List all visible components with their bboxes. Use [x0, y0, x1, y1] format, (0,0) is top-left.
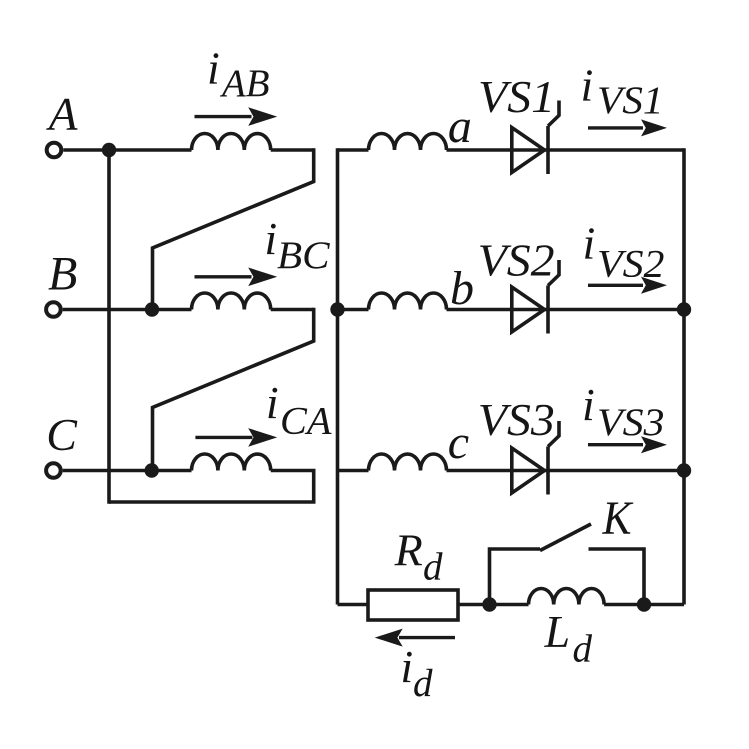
- wire winding BC to zigzag: [271, 308, 314, 312]
- wire B terminal to winding BC: [63, 308, 192, 312]
- node bus-b: [330, 302, 344, 316]
- arrow i_d (points left): [375, 629, 455, 647]
- switch K blade: [540, 524, 591, 551]
- svg-text:i: i: [581, 59, 594, 110]
- arrow i_VS3: [588, 436, 667, 453]
- svg-text:i: i: [207, 43, 220, 94]
- wire A-phase bus down: [107, 148, 111, 503]
- thyristor VS2: [512, 287, 545, 332]
- node A: [102, 143, 116, 157]
- svg-text:VS3: VS3: [478, 394, 555, 445]
- svg-text:R: R: [394, 525, 423, 576]
- svg-text:i: i: [583, 218, 596, 269]
- svg-text:VS1: VS1: [478, 71, 555, 122]
- wire row b: [338, 308, 369, 312]
- wire C terminal to winding CA: [63, 469, 192, 473]
- thyristor VS3: [512, 448, 545, 493]
- svg-text:i: i: [264, 213, 277, 264]
- wire load row left: [338, 603, 369, 607]
- svg-text:A: A: [46, 89, 78, 141]
- terminal B: [46, 302, 61, 317]
- svg-text:VS2: VS2: [478, 234, 555, 285]
- wire zigzag B-to-C: [153, 308, 314, 471]
- svg-text:VS2: VS2: [597, 243, 665, 286]
- svg-text:a: a: [448, 100, 472, 153]
- switch K frame right: [589, 549, 645, 605]
- wire row a to right bus: [447, 148, 685, 152]
- thyristor VS1: [512, 128, 545, 173]
- svg-text:d: d: [423, 546, 443, 589]
- svg-text:VS1: VS1: [597, 79, 664, 122]
- wire right bus: [682, 148, 686, 604]
- inductor Ld: [529, 588, 605, 604]
- node C: [145, 463, 159, 477]
- wire row b to right bus: [447, 308, 685, 312]
- terminal C: [46, 463, 61, 478]
- svg-text:C: C: [46, 409, 78, 460]
- svg-text:VS3: VS3: [597, 401, 665, 444]
- resistor Rd: [368, 590, 458, 620]
- svg-text:i: i: [582, 379, 595, 430]
- winding b (secondary): [369, 293, 447, 310]
- svg-text:b: b: [450, 262, 474, 315]
- wire winding AB to zigzag: [271, 148, 314, 152]
- arrow i_BC: [195, 268, 278, 287]
- arrow i_VS2: [588, 277, 667, 294]
- wire Ld to right bus: [604, 603, 684, 607]
- svg-text:d: d: [413, 662, 433, 705]
- arrow i_VS1: [588, 119, 667, 136]
- svg-text:K: K: [602, 492, 635, 545]
- svg-text:CA: CA: [280, 400, 332, 443]
- node load-right: [637, 597, 651, 611]
- wire row c to right bus: [447, 469, 685, 473]
- wire A terminal to winding AB: [63, 148, 191, 152]
- svg-text:i: i: [400, 641, 413, 692]
- node load-left: [482, 597, 496, 611]
- wire row c: [338, 469, 369, 473]
- wire Rd to node: [458, 603, 529, 607]
- node B: [145, 302, 159, 316]
- winding AB (primary): [192, 134, 271, 151]
- arrow i_AB: [195, 107, 278, 126]
- winding BC (primary): [192, 293, 271, 310]
- node right-c: [677, 463, 691, 477]
- arrow i_CA: [195, 428, 277, 447]
- node right-b: [677, 302, 691, 316]
- winding c (secondary): [369, 454, 447, 471]
- wire zigzag A-to-B: [153, 148, 314, 309]
- svg-text:i: i: [266, 377, 279, 428]
- wire winding CA to delta bottom: [109, 471, 314, 503]
- wire row a: [338, 148, 369, 152]
- svg-text:B: B: [48, 248, 77, 301]
- svg-text:L: L: [544, 606, 571, 657]
- wire secondary common bus: [336, 148, 340, 604]
- svg-text:c: c: [448, 416, 469, 469]
- svg-text:BC: BC: [277, 234, 331, 277]
- svg-text:AB: AB: [219, 62, 269, 105]
- winding CA (primary): [192, 454, 271, 471]
- terminal A: [47, 143, 62, 158]
- svg-text:d: d: [573, 628, 593, 671]
- winding a (secondary): [369, 134, 447, 151]
- switch K frame left: [490, 549, 541, 605]
